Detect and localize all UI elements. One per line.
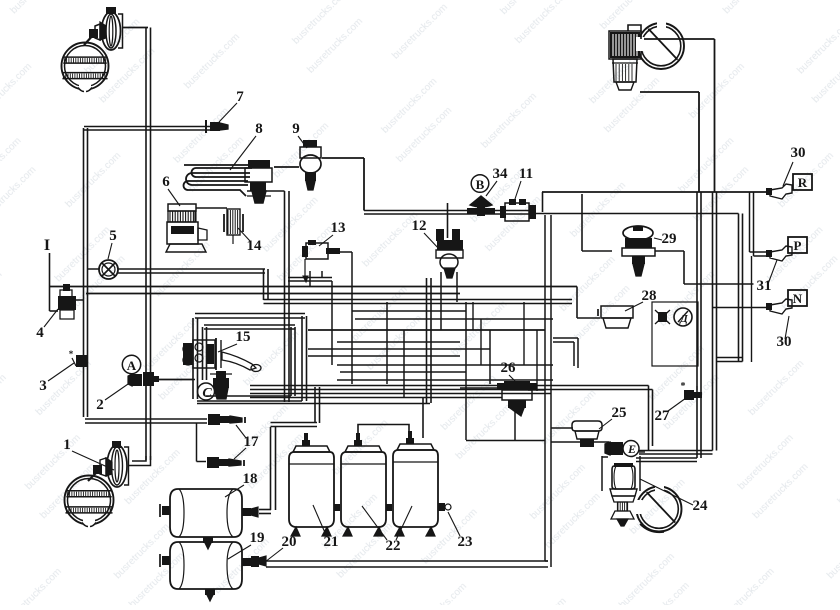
wire mid grid h372 — [340, 371, 466, 373]
node E — [623, 441, 639, 457]
drain 18 — [203, 537, 213, 543]
valve at E — [610, 442, 623, 455]
fitting 3 — [76, 355, 88, 367]
wire rear loop corner down to chamber 24 area — [648, 386, 650, 451]
node R box — [793, 174, 812, 190]
wire loop around regulator 29 — [581, 194, 583, 251]
cooling coil 8 — [192, 168, 253, 177]
sensor 23 fitting — [438, 503, 445, 511]
air dryer 25 — [572, 421, 602, 431]
wire valve 13 right port down — [334, 251, 352, 253]
node B — [471, 175, 489, 193]
wire from valve I down — [49, 253, 51, 311]
wire coil to regulator 9 — [274, 166, 299, 168]
wire tank top grid h393 — [250, 393, 551, 395]
leader 22 left — [362, 506, 387, 540]
wire left vertical pair — [83, 128, 85, 417]
fitting 18 right — [242, 508, 251, 516]
drain valve 27 — [684, 390, 694, 400]
wire bend into brake chamber 1 — [128, 456, 151, 466]
node A — [122, 355, 140, 373]
leader 6 — [168, 189, 180, 206]
compressor 6 body — [167, 222, 198, 244]
wire bottom pair to tank 19 — [266, 560, 548, 562]
svg-text:N: N — [793, 291, 803, 306]
wire mid grid h311 — [352, 310, 466, 312]
reservoir 21 — [289, 452, 334, 527]
wire pair from valve 5 to the right — [118, 268, 265, 270]
bracket frame 24 — [601, 456, 603, 491]
svg-text:2: 2 — [96, 397, 104, 413]
svg-text:9: 9 — [292, 121, 300, 137]
brake valve 5 — [99, 260, 118, 279]
compressor 6 base — [166, 244, 206, 252]
leader 1 — [72, 451, 114, 470]
node N box — [788, 290, 807, 306]
leader 19 — [228, 545, 251, 559]
pressure sensor 17 upper — [208, 414, 220, 425]
brake drum 1 — [65, 476, 114, 525]
svg-text:30: 30 — [791, 145, 806, 161]
leader 4 — [44, 309, 58, 327]
wire corner near muffler 28 drop — [553, 337, 578, 339]
svg-text:7: 7 — [236, 89, 244, 105]
reservoir 22 — [341, 452, 386, 527]
compressor 6 head — [168, 204, 196, 211]
protection valve block 15 — [183, 343, 193, 365]
cross fitting at A — [143, 372, 154, 386]
leader 2 — [105, 382, 131, 400]
svg-text:19: 19 — [250, 530, 265, 546]
wire drop to lower sensor 17 — [196, 423, 198, 462]
reservoir 19 — [170, 542, 242, 589]
svg-text:11: 11 — [519, 166, 533, 182]
wire mid grid h349 — [308, 348, 490, 350]
leader 14 — [238, 228, 250, 241]
svg-text:R: R — [798, 175, 808, 190]
leader 21 — [313, 505, 326, 535]
leader 8 — [230, 136, 256, 170]
wire right loop to bottom — [466, 440, 545, 442]
svg-text:3: 3 — [39, 378, 47, 394]
brake chamber 1 — [107, 445, 127, 487]
wire grid verticals — [331, 281, 333, 365]
wire unloader drop — [284, 191, 286, 402]
wire across to tank 21 stem — [271, 422, 318, 424]
lever of valve 15 — [222, 352, 256, 370]
svg-text:I: I — [44, 237, 50, 254]
brake valve 12 — [437, 240, 463, 250]
wire inner loop — [202, 327, 204, 380]
svg-text:17: 17 — [244, 434, 260, 450]
leader 30 bottom — [785, 316, 789, 339]
wire from regulator 9 right and down — [322, 157, 364, 159]
node P box — [788, 237, 807, 253]
svg-text:5: 5 — [109, 228, 117, 244]
wire up to grid — [314, 387, 316, 423]
fitting 18 left — [162, 506, 170, 515]
wire tank 23 stem to grid — [422, 397, 424, 438]
wire vertical pair down centre-right — [544, 215, 546, 561]
svg-text:12: 12 — [412, 218, 427, 234]
gauge valve — [658, 312, 667, 322]
wire to pressure sensor 7 — [84, 126, 210, 128]
svg-text:13: 13 — [331, 220, 346, 236]
svg-text:26: 26 — [501, 360, 517, 376]
reservoir 18 — [170, 489, 242, 537]
wire drop to muffler 28 — [576, 287, 578, 319]
svg-text:29: 29 — [662, 231, 677, 247]
rear drum 24 — [637, 487, 682, 532]
brake force regulator 29 — [623, 226, 653, 240]
wire rear chamber feed upper pair — [639, 450, 713, 452]
wire mid grid h342 — [337, 341, 460, 343]
valve 34 — [470, 196, 492, 207]
fitting 21 right — [334, 504, 340, 511]
svg-text:C: C — [202, 386, 212, 401]
muffler 28 — [601, 306, 633, 318]
wire mid grid h319 — [355, 318, 553, 320]
wire y293 long line — [86, 293, 460, 295]
top-right air filter body — [613, 59, 637, 82]
wire mid grid h380 — [337, 379, 553, 381]
brake valve 4 — [58, 296, 76, 310]
wire stub above valve 12 — [447, 203, 449, 238]
wire from valve 11 up to R line — [542, 192, 544, 212]
leader 20 — [265, 548, 283, 562]
leader 17 lower — [234, 448, 246, 459]
pressure gauge D — [674, 308, 692, 326]
leader 22 right — [396, 506, 412, 540]
wire valve 26 right port — [528, 389, 545, 391]
wire valve 26 left port — [460, 387, 502, 389]
fitting 19 right / valve 20 — [242, 558, 251, 566]
connector 31 to P — [770, 246, 792, 261]
leader 12 — [424, 233, 440, 250]
wire from valve 4 to left vertical — [76, 299, 84, 301]
wire tank top grid h397 — [250, 397, 502, 399]
pressure sensor 7 — [210, 122, 220, 131]
wire pair to valves 34 and 11 — [364, 210, 533, 212]
wire bend down — [263, 269, 265, 300]
svg-text:34: 34 — [493, 166, 509, 182]
leader 9 — [298, 136, 307, 148]
svg-text:1: 1 — [63, 437, 71, 453]
leader 25 — [599, 419, 612, 429]
wire to valve 26 lower branch — [514, 407, 516, 441]
leader 27 — [668, 398, 686, 411]
wire rear verticals pair B — [712, 192, 714, 451]
pushrod 1 — [88, 469, 100, 481]
wire main left vertical pair — [145, 28, 147, 461]
top-right brake chamber — [610, 32, 640, 58]
wire stub below P corner — [751, 256, 753, 362]
svg-text:*: * — [69, 349, 74, 359]
wire pair left of valve 12 down — [426, 278, 428, 403]
leader 34 — [486, 181, 497, 196]
wire long horizontal pair to right loops — [264, 299, 573, 301]
valve 2 — [132, 374, 142, 386]
top-right drum — [638, 23, 684, 69]
svg-text:24: 24 — [693, 498, 709, 514]
connector 30 to R — [770, 184, 792, 199]
wire pair to sensors 17 — [85, 418, 207, 420]
leader 30 top — [783, 162, 793, 186]
svg-text:6: 6 — [162, 174, 170, 190]
wire rear chamber feed lower pair — [636, 457, 697, 459]
wire stubs under valve 13 — [309, 271, 311, 286]
wire from valve 11 to right loop — [533, 213, 739, 215]
wire R line — [542, 191, 770, 193]
wire right loop bottom pair — [717, 357, 743, 359]
wire long line y287 — [49, 286, 577, 288]
leader 15 — [218, 344, 237, 352]
svg-text:22: 22 — [386, 538, 401, 554]
leader 7 — [219, 103, 237, 122]
reservoir 23 — [393, 450, 438, 527]
wire U pipe tanks 22-23 — [358, 425, 409, 438]
pressure regulator 9 — [303, 140, 317, 147]
instrument panel box — [652, 302, 698, 366]
wire top-right chamber upper — [641, 38, 715, 40]
svg-text:30: 30 — [777, 334, 792, 350]
svg-text:P: P — [794, 238, 802, 253]
svg-text:27: 27 — [655, 408, 671, 424]
fitting 22 right — [386, 504, 392, 511]
wire under valve 25 to E valve — [551, 441, 601, 443]
wire to valve 25 — [551, 427, 573, 429]
unloader valve on coil — [248, 160, 270, 168]
wire tank top grid h403 — [197, 403, 430, 405]
wire stub to brake valve 5 — [88, 268, 100, 270]
svg-text:23: 23 — [458, 534, 473, 550]
wire N line — [712, 307, 770, 309]
rear brake chamber 24 — [612, 466, 635, 489]
leader 18 — [225, 485, 244, 497]
svg-text:18: 18 — [243, 471, 258, 487]
four-circuit protection valve 26 — [504, 381, 530, 390]
brake drum front-left — [62, 43, 109, 90]
wire vertical pair to P — [749, 192, 751, 252]
wire tank top grid pair h385 to rear loop — [250, 385, 649, 387]
leader 13 — [319, 235, 333, 246]
leader 29 — [654, 238, 662, 240]
pushrod front-left — [84, 33, 95, 45]
wire compressor head to filter — [196, 207, 227, 209]
wire from tank 18 up — [270, 427, 272, 510]
svg-text:A: A — [127, 358, 137, 373]
wire right loop vertical pair — [738, 214, 740, 362]
wire from front-left brake chamber to main vertical — [122, 27, 148, 29]
air filter 14 — [227, 209, 240, 235]
wire stubs under valve 12 — [440, 272, 442, 330]
svg-text:*: * — [681, 381, 686, 392]
svg-text:8: 8 — [255, 121, 263, 137]
valve 13 — [306, 243, 328, 259]
leader 31 — [768, 260, 777, 284]
svg-text:E: E — [627, 442, 636, 456]
wire mid grid h356 — [308, 355, 460, 357]
node C — [198, 383, 215, 400]
wire mid grid h365 — [337, 364, 553, 366]
wire from fitting A right — [153, 379, 195, 381]
leader 24 — [640, 479, 693, 505]
valve C body — [213, 378, 229, 388]
wire mid grid h330 — [308, 329, 545, 331]
wire E valve to chamber pipes — [639, 451, 645, 453]
svg-text:25: 25 — [612, 405, 627, 421]
leader 26 — [509, 375, 515, 381]
protection valve 11 — [505, 203, 529, 221]
leader 23 — [448, 512, 460, 536]
svg-text:Д: Д — [679, 313, 688, 325]
leader 11 — [514, 181, 521, 202]
svg-text:15: 15 — [236, 329, 251, 345]
leader 3 — [48, 363, 74, 381]
svg-text:B: B — [476, 177, 485, 192]
wire top-right chamber lower — [640, 91, 699, 93]
brake chamber front-left top — [102, 12, 121, 50]
pressure sensor 17 lower — [207, 457, 219, 468]
wire from junction A to loop — [153, 379, 193, 381]
wire rear verticals pair A — [696, 192, 698, 458]
wire chamber top elbow — [628, 25, 641, 39]
leader 17 upper — [236, 425, 246, 438]
connector 30 to N — [770, 299, 792, 314]
svg-text:21: 21 — [324, 534, 339, 550]
leader 28 — [625, 302, 643, 311]
wire loop around valves 15 and C — [192, 318, 194, 399]
svg-text:4: 4 — [36, 325, 44, 341]
fitting 19 left — [162, 556, 170, 565]
wire pair near valve 13 — [288, 277, 332, 279]
leader 5 — [108, 243, 112, 259]
drain 19 — [205, 589, 215, 595]
